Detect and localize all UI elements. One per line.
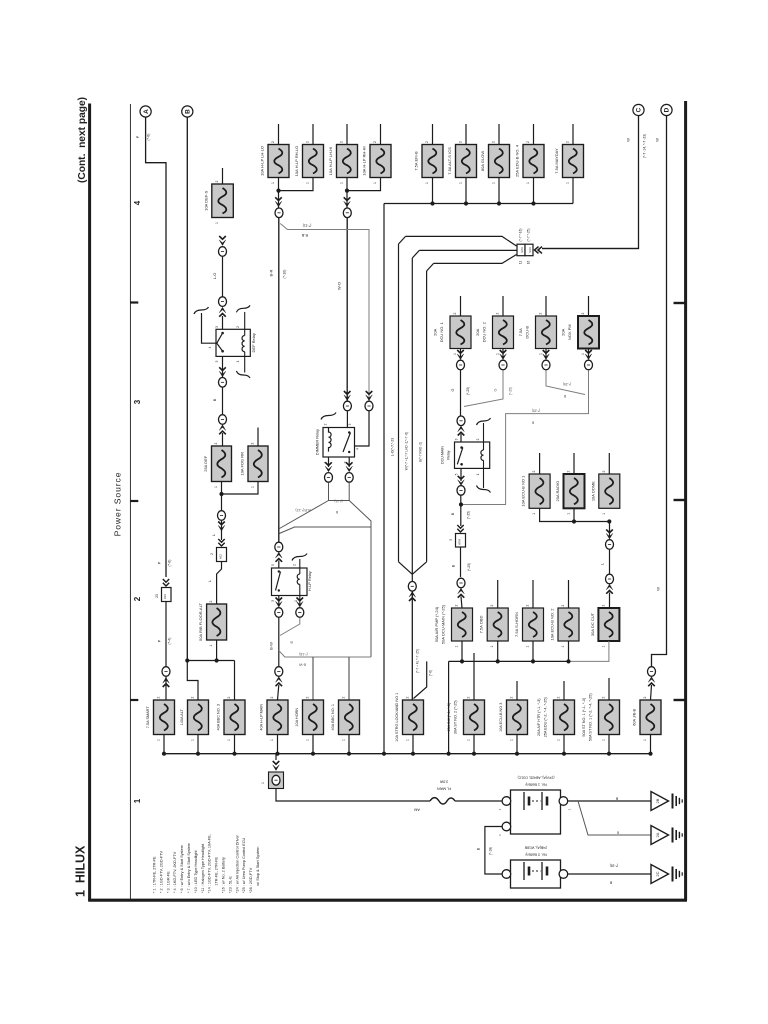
- svg-text:1: 1: [209, 644, 213, 646]
- svg-text:DCU NO. 2: DCU NO. 2: [482, 321, 487, 342]
- svg-text:(*-10): (*-10): [283, 270, 287, 279]
- svg-text:1: 1: [425, 182, 429, 184]
- bus below ECU-B/RADIO/DOME: [540, 508, 610, 521]
- fuse F13 50A R/B FLOOR-ALT: [207, 604, 227, 640]
- svg-text:B: B: [335, 510, 338, 514]
- svg-text:* 7 : w/o Entry & Start System: * 7 : w/o Entry & Start System: [187, 843, 191, 893]
- wire B (-25) down with junction: [460, 495, 462, 526]
- svg-text:Relay: Relay: [447, 450, 451, 459]
- svg-text:1: 1: [568, 808, 572, 810]
- svg-text:2: 2: [214, 442, 218, 444]
- svg-text:(*-25): (*-25): [467, 563, 471, 571]
- svg-text:1: 1: [467, 739, 471, 741]
- wire RH-HI join to LH-HI: [347, 178, 381, 191]
- svg-text:1: 1: [306, 182, 310, 184]
- svg-text:2: 2: [236, 326, 240, 328]
- connector oval on B-R wire: [275, 197, 282, 200]
- svg-text:25A EDU (*-2, *-4, *-25): 25A EDU (*-2, *-4, *-25): [544, 696, 548, 737]
- svg-text:1: 1: [496, 353, 500, 355]
- svg-text:1: 1: [236, 360, 240, 362]
- fuse 140A ALT: [188, 700, 209, 735]
- wire battery No.1 to ground 2B: [568, 800, 651, 802]
- svg-text:20A: 20A: [475, 328, 480, 335]
- wire fuse to bottom bus: [348, 735, 350, 754]
- fuse F11 25A DEF: [212, 446, 232, 482]
- junction on bottom bus: [562, 752, 566, 756]
- svg-text:B: B: [451, 512, 455, 515]
- DEF relay internals: switch and coil: [217, 333, 223, 351]
- svg-text:2: 2: [157, 696, 161, 698]
- svg-text:40A BBC NO. 1: 40A BBC NO. 1: [331, 704, 335, 730]
- svg-text:30A DC CUT: 30A DC CUT: [590, 612, 595, 636]
- labels B (-25) below connector: [460, 547, 462, 577]
- svg-text:FL MAIN: FL MAIN: [437, 787, 451, 791]
- fuse 10A ECU-B NO 3: [507, 700, 528, 735]
- svg-text:*14 : 1GD-FTV, 2GD-FTV, 10A-FE: *14 : 1GD-FTV, 2GD-FTV, 10A-FE,: [208, 834, 212, 893]
- wire LH-HI down: [346, 178, 348, 208]
- chevron and connector 3 ATM: [457, 525, 463, 532]
- svg-text:NO3: NO3: [520, 247, 524, 253]
- svg-text:5: 5: [271, 564, 275, 566]
- svg-text:30A ST NO. 2 (*-25): 30A ST NO. 2 (*-25): [454, 700, 458, 735]
- svg-text:25A EDU-B NO. 4: 25A EDU-B NO. 4: [515, 144, 520, 177]
- svg-text:1: 1: [498, 808, 502, 810]
- fuse 20A RADIO: [564, 474, 585, 508]
- oval on A wire above SMART fuse: [162, 667, 170, 677]
- right border tick 1/2: [674, 699, 686, 701]
- wire fuse to bottom bus: [312, 735, 314, 754]
- svg-text:D: D: [664, 107, 671, 112]
- fuse 20A NOX PM: [578, 316, 599, 349]
- svg-text:Power Source: Power Source: [113, 472, 123, 537]
- svg-text:3: 3: [449, 539, 453, 541]
- wire fuse to bus: [498, 178, 500, 204]
- svg-text:2: 2: [526, 141, 530, 143]
- wire stub above ECU-B NO 3: [516, 681, 518, 700]
- svg-text:1: 1: [510, 739, 514, 741]
- svg-text:w/ Stop & Start System: w/ Stop & Start System: [256, 847, 260, 893]
- double chevron into NO3: [535, 247, 543, 254]
- wire stub above fuse 10A H-LP LH-LO: [278, 124, 280, 145]
- bracket markers at H-LP relay: [292, 554, 307, 561]
- oval above DIMMER relay pin 4: [366, 391, 373, 394]
- svg-text:(*-18): (*-18): [610, 864, 618, 868]
- svg-text:2: 2: [342, 696, 346, 698]
- svg-text:A12: A12: [219, 554, 223, 559]
- svg-text:1: 1: [294, 600, 298, 602]
- svg-text:(*-6): (*-6): [429, 670, 433, 676]
- svg-text:2: 2: [561, 604, 565, 606]
- wire stub above fuse 20A DCU NO. 2: [502, 296, 504, 316]
- wire from A with label P (-6): [146, 117, 166, 577]
- svg-text:2: 2: [643, 696, 647, 698]
- svg-text:B-R(*-12): B-R(*-12): [295, 508, 310, 512]
- svg-text:2: 2: [191, 696, 195, 698]
- svg-text:10A HORN: 10A HORN: [295, 708, 299, 727]
- wire W-O vertical with label W-O: [346, 218, 348, 402]
- svg-text:2: 2: [210, 553, 214, 555]
- svg-text:1: 1: [261, 782, 265, 784]
- wire battery No.2 to ground 2C label B (-18): [568, 873, 651, 875]
- wire down to DC CUT chain: [609, 522, 611, 539]
- wire stub above fuse 80A GLOW: [498, 124, 500, 145]
- fuse F2 10A H-LP RH-LO: [303, 145, 324, 178]
- junction on bottom bus: [472, 752, 476, 756]
- svg-text:4: 4: [208, 346, 212, 348]
- wire fuse to bottom bus: [197, 735, 199, 754]
- svg-text:1: 1: [561, 645, 565, 647]
- svg-text:P: P: [135, 135, 140, 138]
- fuse F12 10A FOG RR: [248, 446, 268, 482]
- oval above DIMMER relay pin 5: [344, 391, 351, 394]
- arrow and connector 1 AM tap: [275, 754, 277, 760]
- svg-text:2: 2: [539, 312, 543, 314]
- bracket markers at DEF relay: [194, 307, 209, 314]
- svg-text:NOX PM: NOX PM: [567, 324, 572, 340]
- fuse F3 10A H-LP LH-HI: [337, 145, 358, 178]
- svg-text:10A DOME: 10A DOME: [590, 481, 595, 501]
- svg-text:*16 : w/ No. 2 Battery: *16 : w/ No. 2 Battery: [222, 857, 226, 893]
- svg-text:1: 1: [251, 486, 255, 488]
- wire B (-25) from NOX PM to DCU-MAIN output: [461, 370, 589, 504]
- ground 2B: [651, 792, 669, 811]
- wire stub above FOG RR: [257, 428, 259, 447]
- wire fuse to bus: [572, 178, 574, 204]
- svg-text:* 4 : 1KD-FTV, 2KD-FTV: * 4 : 1KD-FTV, 2KD-FTV: [173, 851, 177, 893]
- svg-text:7.5A MAYDAY: 7.5A MAYDAY: [554, 148, 559, 174]
- svg-text:20A: 20A: [433, 328, 438, 335]
- wires below 25A DEF and FOG RR join: [221, 482, 223, 512]
- oval above H-LP relay: [275, 542, 283, 552]
- svg-text:7.5A: 7.5A: [518, 328, 523, 337]
- svg-text:L: L: [600, 562, 605, 565]
- fuse 10A DOME: [599, 474, 620, 508]
- svg-text:50A DCU-MAIN (*-25): 50A DCU-MAIN (*-25): [441, 604, 446, 644]
- DEF relay U1: [216, 329, 250, 356]
- svg-text:10A ECU-B NO 3: 10A ECU-B NO 3: [499, 703, 503, 732]
- connector circle D: [661, 104, 672, 115]
- wire S-HORN to row3 bus: [532, 641, 534, 661]
- svg-text:23: 23: [155, 594, 159, 598]
- svg-text:1: 1: [643, 739, 647, 741]
- svg-text:2: 2: [602, 696, 606, 698]
- svg-text:*26 : 2GD-FTV: *26 : 2GD-FTV: [249, 867, 253, 893]
- svg-text:2: 2: [455, 604, 459, 606]
- svg-text:W: W: [626, 138, 631, 142]
- fuse 7.5A SMART: [154, 700, 175, 735]
- svg-text:1: 1: [567, 513, 571, 515]
- fuse F10 10A DEF-S: [212, 184, 234, 218]
- svg-text:20A RADIO: 20A RADIO: [555, 481, 560, 502]
- H-LP relay U3: [272, 568, 308, 596]
- junction on bottom bus: [411, 752, 415, 756]
- fork wire B-R (-12) to B-R line: [280, 501, 329, 529]
- fork wire B-R (-11) via loop: [349, 501, 371, 658]
- H-LP relay internals: [276, 572, 281, 591]
- svg-text:2: 2: [306, 696, 310, 698]
- wire fuse to bus: [432, 178, 434, 204]
- svg-text:1: 1: [215, 222, 219, 224]
- junction LH-LO/RH-LO: [276, 189, 280, 193]
- wire OBD to row3 bus: [497, 641, 499, 661]
- battery No.1 positive terminal: [559, 797, 568, 806]
- junction on bottom bus: [196, 752, 200, 756]
- svg-text:1: 1: [214, 486, 218, 488]
- svg-text:W: W: [655, 138, 660, 142]
- frame bottom border: [88, 899, 687, 902]
- svg-text:16: 16: [526, 261, 530, 265]
- svg-text:3: 3: [271, 600, 275, 602]
- wire stub above fuse 10A DEF-S: [222, 168, 224, 184]
- svg-text:(*-11): (*-11): [334, 499, 342, 503]
- junction row3 drop on bottom bus: [447, 752, 451, 756]
- svg-text:G: G: [451, 388, 455, 391]
- svg-text:5: 5: [455, 473, 459, 475]
- svg-text:* 3 : 1GR-FE: * 3 : 1GR-FE: [166, 871, 170, 893]
- ground 2C: [651, 865, 669, 884]
- right border tick 2/3: [674, 499, 686, 501]
- svg-text:(*-7 *-25): (*-7 *-25): [526, 229, 530, 242]
- fuse 7.5A OBD: [487, 608, 508, 641]
- svg-text:11: 11: [518, 261, 522, 265]
- battery No.2 terminal right: [559, 870, 568, 879]
- svg-text:ATM: ATM: [458, 538, 462, 544]
- connector circle B: [182, 106, 193, 117]
- svg-text:2: 2: [532, 470, 536, 472]
- svg-text:2: 2: [251, 442, 255, 444]
- svg-text:B: B: [477, 847, 481, 850]
- connector NO3 pins 11 and 16: [517, 244, 525, 256]
- svg-text:7.5A OBD: 7.5A OBD: [479, 616, 484, 634]
- svg-text:3: 3: [215, 326, 219, 328]
- connector oval on W-O wire: [344, 197, 351, 200]
- wire stub above fuse 20A RADIO: [573, 453, 575, 474]
- svg-text:P: P: [157, 639, 162, 642]
- svg-text:2: 2: [492, 141, 496, 143]
- bracket markers at DCU-MAIN relay: [477, 418, 491, 425]
- svg-text:1: 1: [270, 739, 274, 741]
- merge of option wires to STRG LOCK feed: [399, 562, 413, 575]
- svg-text:2: 2: [270, 696, 274, 698]
- svg-text:1: 1: [539, 353, 543, 355]
- fuse 7.5A DCU-B: [536, 316, 557, 349]
- battery No.1 terminal 2 lower: [502, 822, 511, 831]
- svg-text:4: 4: [133, 200, 142, 205]
- svg-text:2: 2: [324, 423, 328, 425]
- labels P (-4) on A wire: [165, 602, 167, 667]
- svg-text:10A DEF-S: 10A DEF-S: [203, 190, 208, 210]
- wire stub above fuse 7.5A DCU-B: [545, 296, 547, 316]
- oval above 60A J/B-B: [648, 667, 656, 677]
- arrow and oval below DCU-MAIN relay: [460, 468, 462, 481]
- svg-text:140A ALT: 140A ALT: [180, 708, 184, 725]
- svg-text:(*-4): (*-4): [168, 638, 172, 645]
- wire stub above fuse 7.5A EFI-B: [432, 124, 434, 145]
- svg-text:No. 2 Battery: No. 2 Battery: [525, 853, 547, 857]
- oval above H-LP MAIN fuse: [275, 667, 283, 677]
- svg-text:B: B: [616, 831, 619, 835]
- svg-text:10A FOG RR: 10A FOG RR: [240, 452, 245, 476]
- wire B-W to H-LP MAIN: [278, 618, 280, 667]
- svg-text:20A: 20A: [561, 328, 566, 335]
- svg-text:1: 1: [581, 353, 585, 355]
- fuse 10A ECU-B NO. 2: [558, 608, 579, 641]
- wire branch to ground 2A: [578, 801, 651, 835]
- wire stub above fuse 10A H-LP RH-HI: [380, 124, 382, 145]
- svg-text:A: A: [143, 109, 150, 114]
- arrow and oval below fuse: [545, 349, 547, 359]
- wire drop to 40A BBC NO.3: [234, 661, 236, 701]
- svg-text:1: 1: [306, 739, 310, 741]
- svg-text:B: B: [185, 109, 192, 114]
- battery No. 1: [511, 790, 561, 834]
- wire stub above fuse 7.5A OBD: [497, 580, 499, 608]
- junction on bottom bus: [232, 752, 236, 756]
- fuse 10A ECU-B NO 1: [529, 474, 550, 508]
- DCU-MAIN relay U4: [455, 442, 490, 468]
- junction on bus: [497, 201, 501, 205]
- fuse 60A J/B-B: [640, 700, 661, 735]
- svg-text:H-LP Relay: H-LP Relay: [308, 571, 312, 590]
- wire label L-O: [222, 257, 224, 298]
- svg-text:2B: 2B: [655, 798, 660, 803]
- svg-text:2: 2: [453, 312, 457, 314]
- fuse 40A BBC NO. 1: [339, 700, 360, 735]
- bus under EFI-B group fuses: [384, 203, 573, 205]
- wire to fuse STRG LOCK: [411, 591, 413, 700]
- svg-text:(Cont. next page): (Cont. next page): [77, 97, 88, 183]
- fuse 20A DCU NO. 1: [450, 316, 471, 349]
- svg-text:2: 2: [227, 696, 231, 698]
- svg-text:50A ST NO. 1 (*-2, *-4, *-25): 50A ST NO. 1 (*-2, *-4, *-25): [589, 693, 593, 742]
- wire label L: [609, 550, 611, 574]
- svg-text:2: 2: [496, 312, 500, 314]
- wire fuse to bottom bus: [412, 735, 414, 754]
- svg-text:3.0W: 3.0W: [439, 780, 448, 784]
- fuse 50A ST NO. 1 (*-1, *-3): [599, 700, 620, 735]
- section tick 1/2: [130, 699, 138, 701]
- svg-text:(*-25): (*-25): [467, 511, 471, 519]
- junction on bus: [464, 201, 468, 205]
- wire stub above fuse 10A H-LP RH-LO: [312, 124, 314, 145]
- svg-text:(*-7 + M, *-7 -25): (*-7 + M, *-7 -25): [416, 649, 420, 673]
- svg-text:3: 3: [133, 399, 142, 404]
- wire G (-25) from DCU NO.2 joins: [464, 370, 503, 406]
- svg-text:7.5A S-HORN: 7.5A S-HORN: [514, 612, 519, 637]
- wire stub above fuse 7.5A S-HORN: [532, 580, 534, 608]
- right border tick 3/4: [674, 302, 686, 304]
- svg-text:(*-18): (*-18): [299, 652, 307, 656]
- junction on bus: [531, 201, 535, 205]
- junction on bus: [430, 201, 434, 205]
- section tick 2/3: [130, 500, 138, 502]
- wire AM to FL MAIN: [276, 789, 430, 802]
- svg-text:DCU NO. 1: DCU NO. 1: [439, 321, 444, 342]
- wire fuse to bottom bus: [473, 735, 475, 754]
- ground 2A: [651, 826, 669, 845]
- svg-text:B: B: [452, 564, 456, 567]
- wire stub above fuse 10A DOME: [608, 453, 610, 474]
- svg-text:B-W: B-W: [269, 642, 274, 650]
- bracket marker above DIMMER relay: [321, 413, 336, 420]
- svg-text:2: 2: [490, 604, 494, 606]
- wire ECU-B NO.2 to row3 bus: [568, 641, 570, 661]
- junction on bottom bus: [347, 752, 351, 756]
- svg-text:1: 1: [602, 513, 606, 515]
- svg-text:2: 2: [293, 564, 297, 566]
- svg-text:1: 1: [476, 473, 480, 475]
- wire DC CUT to row3 bus: [608, 641, 610, 661]
- svg-text:(*-6): (*-6): [147, 134, 151, 141]
- svg-text:10A ECU-B NO. 2: 10A ECU-B NO. 2: [550, 608, 555, 641]
- connector circle C: [633, 104, 644, 115]
- svg-text:2: 2: [510, 696, 514, 698]
- wire B-R main vertical with label B-R (-10): [278, 218, 280, 542]
- wire stub above 50A ST NO.1: [608, 678, 610, 700]
- wire AIR PMP to row3 bus: [461, 641, 463, 661]
- DIMMER relay U2: [323, 428, 355, 458]
- wire fuse to bottom bus: [563, 735, 565, 754]
- wire battery No.1 to battery No.2 label B (-18): [485, 827, 502, 875]
- oval above DEF relay: [219, 297, 227, 307]
- svg-text:(*-25): (*-25): [509, 387, 513, 395]
- wire stub above fuse 25A EDU-B NO. 4: [533, 124, 535, 145]
- svg-text:1: 1: [566, 182, 570, 184]
- svg-text:No. 1 Battery: No. 1 Battery: [525, 783, 547, 787]
- wire fuse to bottom bus: [234, 735, 236, 754]
- svg-text:(*-18): (*-18): [489, 847, 493, 855]
- svg-text:B: B: [615, 797, 618, 801]
- wire stub above fuse 10A H-LP LH-HI: [346, 124, 348, 145]
- svg-text:50A ST NO. 1 (*-1, *-3): 50A ST NO. 1 (*-1, *-3): [582, 697, 586, 736]
- connector oval on STRG LOCK feed: [408, 582, 416, 592]
- svg-text:40A H-LP MAIN: 40A H-LP MAIN: [260, 704, 264, 731]
- bottom bus: [162, 753, 651, 755]
- svg-text:20A A/F HTR (*-1, *-3): 20A A/F HTR (*-1, *-3): [537, 698, 541, 736]
- wire stub above fuse 20A NOX PM: [588, 296, 590, 316]
- svg-text:G(*-7 RHD -2): G(*-7 RHD -2): [419, 442, 423, 462]
- svg-text:2: 2: [581, 312, 585, 314]
- svg-text:1TR-FE, 2TR-FE: 1TR-FE, 2TR-FE: [215, 856, 219, 893]
- svg-text:1: 1: [526, 645, 530, 647]
- svg-text:10A H-LP LH-HI: 10A H-LP LH-HI: [328, 147, 333, 176]
- chevron and connector 23: [163, 579, 169, 586]
- svg-text:2: 2: [306, 141, 310, 143]
- section tick 3/4: [130, 301, 138, 303]
- drop to 40A BBC NO.1: [348, 657, 350, 700]
- svg-text:(*-25): (*-25): [563, 382, 571, 386]
- svg-text:2: 2: [271, 141, 275, 143]
- svg-text:1: 1: [557, 739, 561, 741]
- svg-text:2: 2: [566, 141, 570, 143]
- svg-text:* 6 : w/ Entry & Start System: * 6 : w/ Entry & Start System: [180, 845, 184, 893]
- svg-text:* 1 : 1TR-FE, 2TR-FE: * 1 : 1TR-FE, 2TR-FE: [153, 856, 157, 893]
- junction B wire to floor bus: [185, 658, 189, 662]
- wire fuse to bottom bus: [277, 735, 279, 754]
- fuse 40A BBC NO. 3: [224, 700, 245, 735]
- svg-text:1: 1: [532, 513, 536, 515]
- svg-text:1: 1: [340, 182, 344, 184]
- svg-text:50A AIR PMP (*-24): 50A AIR PMP (*-24): [434, 606, 439, 642]
- svg-text:5: 5: [348, 423, 352, 425]
- svg-text:7.5A SMART: 7.5A SMART: [146, 706, 150, 729]
- drop to 10A HORN: [312, 657, 314, 700]
- svg-text:1: 1: [601, 645, 605, 647]
- svg-text:2: 2: [567, 470, 571, 472]
- arrow and oval below fuse: [502, 349, 504, 359]
- svg-text:B-W: B-W: [298, 663, 306, 667]
- DCU-MAIN relay internals: [457, 448, 463, 465]
